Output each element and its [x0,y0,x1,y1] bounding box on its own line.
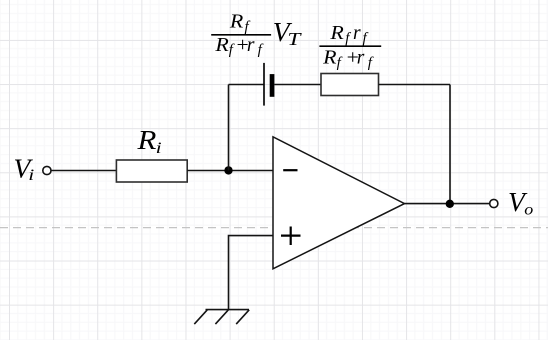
svg-text:r: r [353,23,361,44]
svg-text:R: R [322,48,337,69]
ground hatch 3 [236,310,249,324]
ground bar [206,309,250,311]
ground hatch 1 [194,310,207,324]
fraction bar left [211,34,271,36]
svg-text:o: o [524,201,533,218]
terminal Vi [43,166,51,174]
op-amp U1 [273,137,405,269]
resistor Ri [116,160,187,182]
wire right riser down to output [449,85,451,204]
plus sign (non-inverting input) [281,227,301,246]
wire output [405,203,490,205]
svg-text:i: i [156,140,162,157]
svg-text:r: r [247,35,255,56]
wire node A up to feedback branch [228,85,230,171]
wire to battery [229,84,265,86]
wire Vi to Ri [51,170,116,172]
resistor Rf rf / (Rf+rf) [321,74,379,96]
minus sign (inverting input) [283,169,297,171]
fraction bar right [319,45,381,47]
svg-text:R: R [136,124,156,155]
svg-text:i: i [28,167,34,184]
wire Ri to op-amp minus input [187,170,273,172]
svg-text:R: R [229,11,244,32]
wire feedback resistor to right riser [379,84,451,86]
dashed guide line [0,227,548,229]
svg-text:r: r [357,48,365,69]
wire battery to feedback resistor [274,84,321,86]
svg-text:R: R [214,35,229,56]
battery VT long plate [263,63,265,106]
svg-text:R: R [329,23,344,44]
wire plus input to ground [229,236,274,310]
node B (output junction) [446,200,454,208]
node A (inverting input junction) [224,166,232,174]
terminal Vo [490,199,498,207]
ground hatch 2 [215,310,228,324]
battery VT short thick plate [270,74,275,97]
